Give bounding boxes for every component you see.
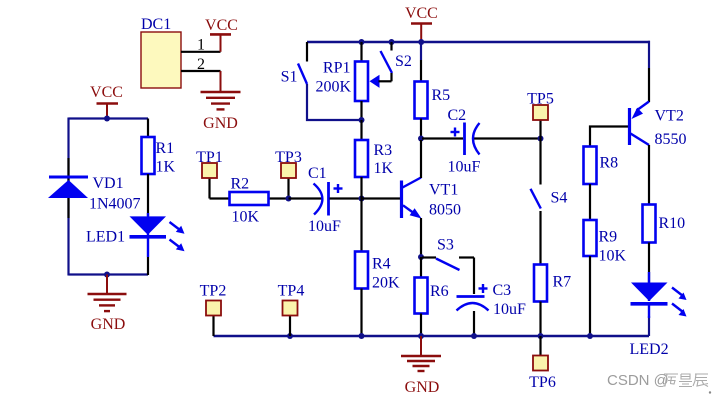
node C3 bottom junction <box>471 333 477 339</box>
switch S3 <box>422 237 474 295</box>
node R3 bottom junction <box>359 196 365 202</box>
svg-text:R8: R8 <box>600 155 619 172</box>
svg-text:8550: 8550 <box>655 131 687 148</box>
svg-text:8050: 8050 <box>429 202 461 219</box>
svg-text:1: 1 <box>197 37 205 54</box>
svg-text:S4: S4 <box>551 190 568 207</box>
resistor R1 1K <box>142 119 176 217</box>
ground (bottom center) <box>401 336 441 371</box>
pin 1 of DC1 <box>181 37 221 54</box>
node S2 top junction <box>389 39 395 45</box>
resistor R4 20K <box>355 199 400 337</box>
svg-text:R6: R6 <box>430 283 449 300</box>
pin 2 of DC1 <box>181 56 221 73</box>
wire right rail drop to VT2 emitter <box>648 41 650 68</box>
svg-text:VCC: VCC <box>90 84 123 101</box>
svg-text:R2: R2 <box>231 176 250 193</box>
watermark CSDN <box>607 372 711 394</box>
svg-text:TP4: TP4 <box>278 283 305 300</box>
svg-text:10uF: 10uF <box>448 159 481 176</box>
test point TP2 <box>200 283 227 337</box>
svg-text:2: 2 <box>197 56 205 73</box>
VCC power port (top center) <box>411 24 432 42</box>
wire S1 lower branch to RP1 bottom <box>307 84 362 120</box>
svg-text:RP1: RP1 <box>323 60 351 77</box>
svg-text:R5: R5 <box>432 87 451 104</box>
ground (DC1) <box>201 71 241 109</box>
test point TP5 <box>527 91 554 139</box>
wire TP3 junction to C1 <box>289 197 322 199</box>
svg-text:C3: C3 <box>493 282 512 299</box>
resistor R6 <box>415 257 449 336</box>
node R6 bottom junction <box>418 333 424 339</box>
node left GND junction <box>104 272 110 278</box>
resistor R10 <box>643 205 686 283</box>
transistor VT1 8050 <box>362 140 461 257</box>
svg-text:C1: C1 <box>308 165 327 182</box>
wire C2 right to TP5 junction <box>474 137 541 139</box>
switch S4 <box>531 139 568 265</box>
svg-text:TP3: TP3 <box>275 149 302 166</box>
capacitor C1 10uF <box>308 165 343 235</box>
wire C1 to R3 junction <box>330 197 362 199</box>
test point TP3 <box>275 149 302 199</box>
svg-text:200K: 200K <box>315 79 351 96</box>
node VCC junction top <box>418 39 424 45</box>
svg-text:GND: GND <box>405 379 440 396</box>
transistor VT2 8550 <box>630 68 687 205</box>
test point TP1 <box>196 149 223 199</box>
svg-text:S1: S1 <box>281 69 298 86</box>
svg-text:R4: R4 <box>372 256 391 273</box>
node TP5 junction <box>538 136 544 142</box>
svg-text:S2: S2 <box>395 53 412 70</box>
DC1 power connector body <box>141 16 181 88</box>
svg-text:TP6: TP6 <box>529 374 556 391</box>
svg-text:10uF: 10uF <box>308 218 341 235</box>
svg-text:TP1: TP1 <box>196 149 223 166</box>
svg-text:1K: 1K <box>374 160 394 177</box>
svg-text:10K: 10K <box>599 248 627 265</box>
VCC power port (left) <box>97 104 119 118</box>
node left VCC junction <box>104 116 110 122</box>
node R9 bottom junction <box>587 333 593 339</box>
switch S2 <box>379 42 412 81</box>
node TP3 junction <box>286 196 292 202</box>
wire LED2 cathode riser <box>648 316 650 336</box>
svg-text:TP5: TP5 <box>527 91 554 108</box>
svg-text:C2: C2 <box>448 107 467 124</box>
wire left loop top <box>69 117 149 119</box>
test point TP6 <box>529 336 556 391</box>
node RP1 bottom junction <box>359 117 365 123</box>
resistor R8 <box>584 127 629 221</box>
svg-text:1K: 1K <box>156 159 176 176</box>
LED LED1 <box>86 213 185 275</box>
svg-text:R9: R9 <box>599 229 618 246</box>
resistor R7 <box>534 265 571 337</box>
resistor R9 10K <box>584 220 627 336</box>
resistor R5 <box>415 42 451 139</box>
capacitor C3 10uF <box>457 282 527 336</box>
svg-text:20K: 20K <box>372 275 400 292</box>
svg-text:LED2: LED2 <box>630 341 669 358</box>
wire bottom ground rail <box>214 335 650 337</box>
node TP4 junction <box>287 333 293 339</box>
svg-text:VCC: VCC <box>405 5 438 22</box>
resistor R3 1K <box>355 120 394 199</box>
switch S1 <box>281 42 307 86</box>
svg-text:VT2: VT2 <box>655 108 684 125</box>
svg-text:VT1: VT1 <box>429 182 458 199</box>
svg-text:R3: R3 <box>374 142 393 159</box>
wire top power rail <box>307 41 650 43</box>
ground (left) <box>88 275 127 312</box>
svg-text:DC1: DC1 <box>141 16 171 33</box>
LED LED2 <box>630 272 687 358</box>
node R7 bottom junction <box>538 333 544 339</box>
node RP1 top junction <box>359 39 365 45</box>
test point TP4 <box>278 283 305 337</box>
svg-text:TP2: TP2 <box>200 283 227 300</box>
svg-text:GND: GND <box>203 115 238 132</box>
VCC power port (DC1) <box>210 34 231 51</box>
svg-text:R7: R7 <box>553 274 572 291</box>
svg-text:1N4007: 1N4007 <box>89 196 141 213</box>
svg-text:VD1: VD1 <box>93 175 124 192</box>
capacitor C2 10uF <box>422 107 481 176</box>
svg-text:10uF: 10uF <box>493 301 526 318</box>
svg-text:LED1: LED1 <box>86 229 125 246</box>
potentiometer RP1 200K <box>315 42 379 120</box>
svg-text:CSDN @: CSDN @ <box>607 372 669 389</box>
svg-text:S3: S3 <box>437 237 454 254</box>
wire left loop bottom <box>69 273 149 275</box>
svg-text:10K: 10K <box>232 209 260 226</box>
node R5 bottom junction <box>418 136 424 142</box>
svg-text:GND: GND <box>91 316 126 333</box>
resistor R2 10K <box>210 176 289 226</box>
svg-text:R1: R1 <box>156 140 175 157</box>
wire left loop left side <box>67 118 69 276</box>
diode VD1 1N4007 <box>48 158 141 218</box>
svg-text:R10: R10 <box>659 215 686 232</box>
node VT1 emitter junction <box>418 254 424 260</box>
svg-text:VCC: VCC <box>205 17 238 34</box>
node R4 bottom junction <box>359 333 365 339</box>
